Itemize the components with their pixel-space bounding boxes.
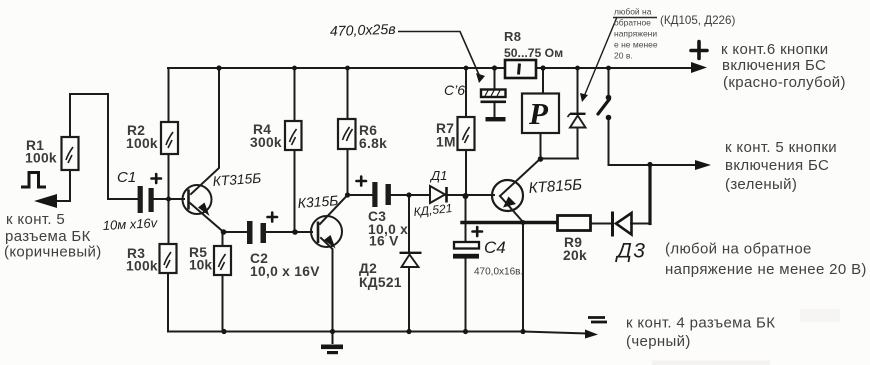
svg-text:(красно-голубой): (красно-голубой)	[723, 74, 846, 91]
svg-text:(любой на обратное: (любой на обратное	[665, 241, 812, 258]
svg-text:(черный): (черный)	[626, 333, 691, 350]
svg-text:1M: 1M	[436, 135, 456, 150]
svg-text:К315Б: К315Б	[297, 192, 339, 211]
svg-text:Д2: Д2	[359, 261, 377, 276]
svg-text:6.8k: 6.8k	[359, 136, 387, 151]
svg-text:включения БС: включения БС	[722, 57, 826, 74]
svg-text:к конт. 4 разъема БК: к конт. 4 разъема БК	[626, 315, 775, 332]
svg-text:е не менее: е не менее	[614, 40, 658, 50]
svg-text:50...75 Ом: 50...75 Ом	[504, 46, 563, 60]
svg-text:С4: С4	[484, 238, 506, 257]
svg-text:напряжени: напряжени	[614, 29, 657, 39]
svg-text:(КД105, Д226): (КД105, Д226)	[660, 14, 735, 27]
svg-text:10,0 x 16V: 10,0 x 16V	[250, 264, 320, 279]
svg-text:к конт.6 кнопки: к конт.6 кнопки	[721, 41, 828, 58]
svg-text:(зеленый): (зеленый)	[725, 176, 797, 193]
svg-text:к конт. 5: к конт. 5	[6, 211, 65, 228]
svg-text:разъема БК: разъема БК	[5, 228, 91, 245]
svg-text:16 V: 16 V	[369, 234, 399, 249]
svg-text:20 в.: 20 в.	[614, 51, 633, 61]
svg-text:R8: R8	[504, 29, 521, 44]
svg-text:обратное: обратное	[614, 18, 651, 28]
svg-text:100k: 100k	[25, 151, 57, 166]
svg-text:20k: 20k	[563, 248, 587, 263]
svg-text:Д3: Д3	[615, 240, 646, 263]
svg-text:КД521: КД521	[359, 275, 402, 290]
svg-text:С1: С1	[117, 169, 136, 186]
svg-text:10м х16v: 10м х16v	[102, 215, 159, 233]
svg-text:470,0х16в.: 470,0х16в.	[474, 267, 523, 278]
svg-text:100k: 100k	[126, 259, 158, 274]
svg-text:300k: 300k	[250, 135, 282, 150]
svg-text:10k: 10k	[189, 258, 212, 273]
svg-text:Д1: Д1	[429, 168, 447, 183]
svg-text:включения БС: включения БС	[725, 157, 829, 174]
svg-text:P: P	[528, 96, 549, 131]
svg-text:(коричневый): (коричневый)	[4, 244, 102, 261]
svg-text:100k: 100k	[126, 136, 158, 151]
svg-text:напряжение не менее 20 В): напряжение не менее 20 В)	[665, 261, 867, 278]
svg-text:470,0х25в: 470,0х25в	[330, 22, 396, 40]
svg-text:любой на: любой на	[614, 7, 652, 17]
svg-text:к конт. 5 кнопки: к конт. 5 кнопки	[725, 139, 837, 156]
svg-text:С’6: С’6	[444, 82, 465, 98]
